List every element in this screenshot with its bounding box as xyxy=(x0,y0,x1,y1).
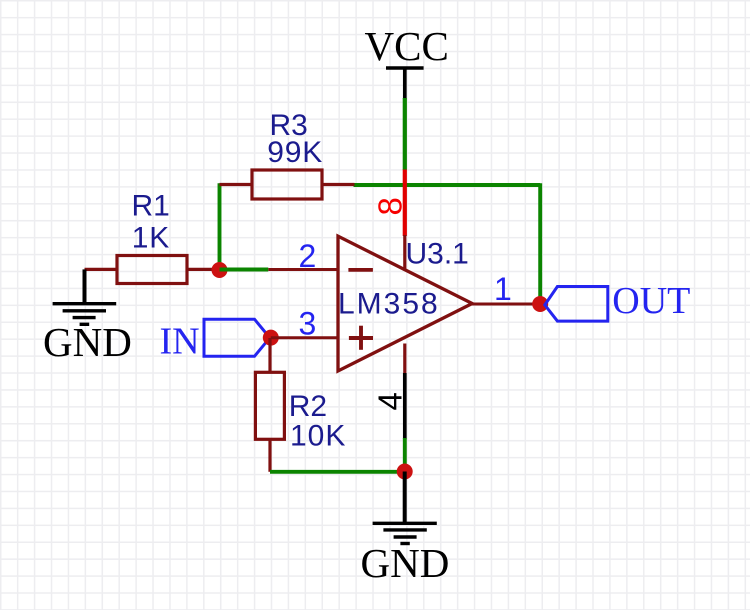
svg-text:VCC: VCC xyxy=(365,23,449,69)
ground GND bottom xyxy=(361,523,450,586)
node D junction dot (output) xyxy=(532,296,548,312)
wire right vertical green xyxy=(538,183,542,304)
wire top horizontal green (R3 right to output column) xyxy=(354,183,541,187)
power flag VCC xyxy=(365,23,449,99)
wire VCC vertical green xyxy=(403,98,407,170)
resistor R3 xyxy=(220,109,355,199)
wire node C to ground xyxy=(403,472,407,523)
svg-text:GND: GND xyxy=(43,319,132,365)
svg-text:LM358: LM358 xyxy=(338,288,440,321)
resistor R1 xyxy=(85,190,220,284)
svg-text:8: 8 xyxy=(372,197,409,215)
svg-text:OUT: OUT xyxy=(612,280,690,322)
net flag OUT xyxy=(545,280,691,322)
svg-text:U3.1: U3.1 xyxy=(406,238,469,271)
svg-text:R1: R1 xyxy=(132,190,170,223)
ground GND left xyxy=(43,269,132,365)
svg-text:R2: R2 xyxy=(289,390,327,423)
pin 8 stub xyxy=(403,235,406,271)
svg-text:GND: GND xyxy=(361,540,450,586)
svg-text:99K: 99K xyxy=(267,136,323,169)
svg-text:1K: 1K xyxy=(132,222,170,255)
wire node A to pin 2 green xyxy=(220,268,269,272)
wire pin4 black segment xyxy=(403,373,407,439)
svg-text:1: 1 xyxy=(494,271,512,307)
pin 4 stub xyxy=(403,344,406,375)
resistor R2 xyxy=(255,372,346,472)
pin 3 stub xyxy=(271,336,339,339)
wire pin4 green segment xyxy=(403,438,407,465)
pin 2 stub xyxy=(268,268,339,271)
svg-text:IN: IN xyxy=(160,321,200,363)
svg-text:3: 3 xyxy=(299,306,317,342)
net flag IN xyxy=(160,319,270,362)
wire left vertical green (R3 left to R1 node) xyxy=(218,183,222,270)
node B junction dot (IN/pin3/R2) xyxy=(263,330,279,346)
wire VCC vertical red segment xyxy=(403,170,407,237)
node A junction dot (R1/R3) xyxy=(212,262,228,278)
wire bottom horizontal green xyxy=(270,470,405,474)
svg-text:2: 2 xyxy=(299,238,317,274)
node C junction dot (R2/GND) xyxy=(397,464,413,480)
op-amp U3.1 xyxy=(338,236,472,371)
pin 1 output stub xyxy=(471,303,540,306)
wire node B down to R2 xyxy=(268,338,271,373)
svg-text:10K: 10K xyxy=(290,420,346,453)
